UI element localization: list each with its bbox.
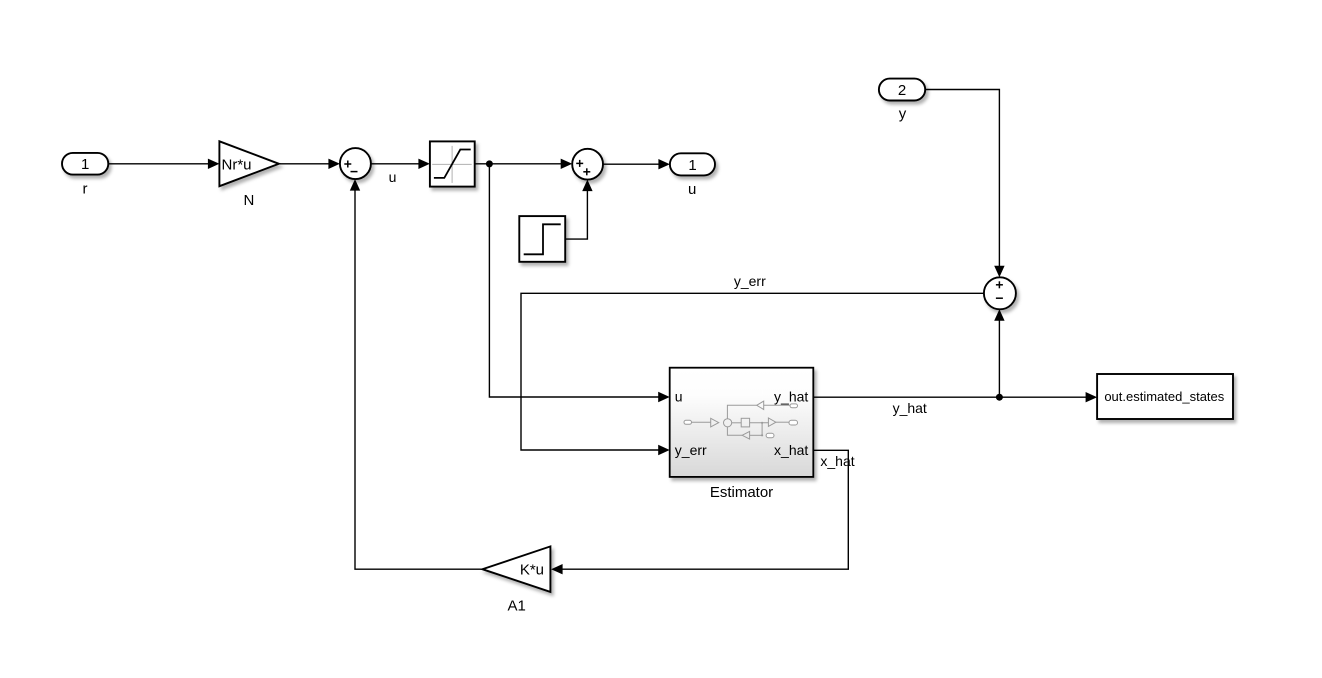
estimator preview: vertical tie: [761, 423, 763, 436]
inport 1 (r): [62, 153, 108, 197]
estimator preview: gain triangle: [768, 418, 776, 426]
wire y to sum S3 top: [925, 90, 1004, 278]
estimator preview: node: [761, 422, 763, 424]
node junction y_hat: [996, 394, 1003, 401]
svg-text:u: u: [675, 389, 683, 405]
wire step to sum S2 bottom: [565, 180, 592, 240]
svg-text:Estimator: Estimator: [710, 484, 773, 501]
svg-text:y_hat: y_hat: [893, 400, 927, 416]
svg-text:y_err: y_err: [675, 442, 707, 458]
estimator subsystem block: [670, 368, 814, 501]
wire junction to estimator u input: [489, 164, 669, 402]
svg-text:u: u: [688, 181, 696, 198]
gain A1 (K*u): [482, 546, 550, 614]
estimator preview: integrator square: [741, 418, 749, 427]
svg-text:N: N: [243, 192, 254, 209]
estimator preview: output port marker: [789, 420, 798, 425]
svg-text:2: 2: [898, 82, 906, 99]
svg-text:y_hat: y_hat: [774, 389, 808, 405]
wire estimator y_hat to out block: [813, 392, 1097, 402]
gain N (Nr*u): [219, 141, 279, 209]
wire r to gain N: [108, 159, 219, 169]
svg-text:x_hat: x_hat: [774, 442, 808, 458]
estimator preview: wire: [692, 421, 711, 423]
estimator preview: sum circle: [724, 419, 732, 427]
estimator preview: L gain triangle: [742, 431, 750, 439]
sum S3 (+ -): [984, 277, 1016, 309]
wire gain A1 to sum S1 bottom: [350, 179, 483, 569]
svg-text:y: y: [899, 105, 907, 122]
estimator preview: wire: [732, 422, 742, 424]
out.estimated_states block: [1097, 374, 1233, 419]
svg-text:Nr*u: Nr*u: [222, 156, 252, 173]
estimator preview: wire: [764, 404, 790, 406]
estimator preview: input port marker: [684, 420, 692, 424]
svg-text:y_err: y_err: [734, 273, 766, 289]
sum S1 (+ -): [340, 148, 371, 179]
wire sum S3 to estimator y_err input: [521, 293, 984, 455]
estimator preview: node: [761, 434, 763, 436]
estimator preview: wire up branch: [727, 405, 756, 419]
wire gain N to sum S1: [279, 159, 340, 169]
estimator preview: wire: [750, 422, 769, 424]
wire saturation to sum S2: [475, 159, 573, 169]
outport 1 (u): [670, 153, 715, 198]
svg-text:r: r: [83, 180, 88, 197]
estimator preview: wire: [750, 434, 763, 436]
svg-text:x_hat: x_hat: [820, 453, 854, 469]
estimator preview: C gain triangle: [757, 401, 764, 409]
svg-text:A1: A1: [508, 598, 526, 615]
step block: [519, 216, 565, 262]
svg-text:1: 1: [688, 157, 696, 174]
estimator preview: x_hat port marker: [766, 433, 774, 437]
estimator preview: gain triangle: [711, 418, 719, 427]
wire y_hat junction to sum S3 bottom: [994, 309, 1004, 397]
svg-text:K*u: K*u: [520, 562, 544, 579]
wire sum S2 to outport 1: [603, 159, 670, 169]
wire sum S1 to saturation: [371, 159, 430, 169]
wire estimator x_hat to gain A1: [551, 450, 848, 574]
sum S2 (+ +): [572, 149, 603, 180]
node junction after saturation: [486, 160, 493, 167]
saturation block: [430, 141, 475, 186]
svg-text:out.estimated_states: out.estimated_states: [1104, 389, 1224, 404]
estimator preview: wire: [776, 421, 789, 423]
estimator preview: wire down branch: [727, 427, 742, 435]
estimator preview: y_hat port marker: [790, 404, 798, 408]
inport 2 (y): [879, 79, 925, 123]
svg-text:1: 1: [81, 156, 89, 173]
svg-text:u: u: [389, 169, 397, 185]
